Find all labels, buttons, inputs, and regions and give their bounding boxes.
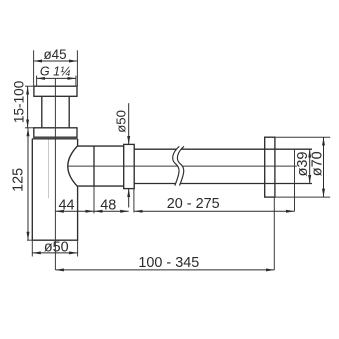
svg-text:ø39: ø39 — [295, 152, 311, 177]
svg-text:15-100: 15-100 — [11, 80, 26, 123]
svg-text:ø70: ø70 — [310, 151, 326, 176]
svg-text:G 1¼: G 1¼ — [40, 64, 71, 78]
svg-text:48: 48 — [100, 197, 116, 213]
svg-text:20 - 275: 20 - 275 — [167, 196, 220, 212]
svg-text:ø50: ø50 — [114, 110, 129, 133]
svg-text:ø45: ø45 — [43, 47, 66, 62]
svg-text:44: 44 — [58, 197, 74, 213]
svg-text:125: 125 — [10, 168, 26, 192]
svg-text:100 - 345: 100 - 345 — [138, 255, 199, 271]
svg-text:ø50: ø50 — [44, 239, 69, 255]
